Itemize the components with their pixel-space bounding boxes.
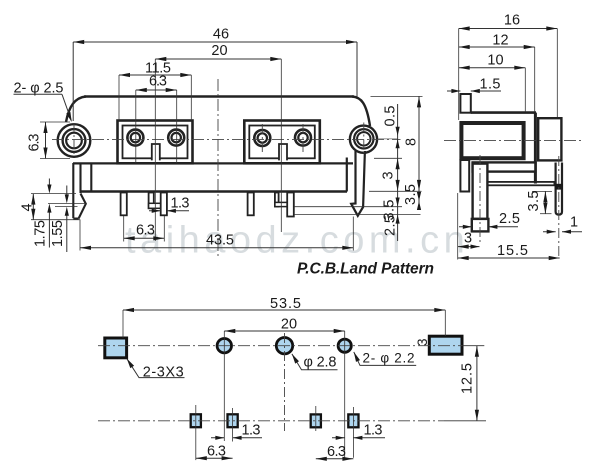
side view rear vertical wall — [534, 113, 537, 184]
arrowheads dim 3.5 inner — [396, 198, 400, 207]
terminal 2 outer — [168, 130, 184, 146]
dim 46 ext left — [72, 42, 74, 121]
contact block 2 outer — [244, 121, 319, 164]
dim 43.5 ext right — [352, 217, 354, 251]
pad A ext — [195, 405, 197, 460]
svg-text:3.5: 3.5 — [526, 191, 542, 212]
left latch barb — [73, 194, 86, 219]
small pad A — [191, 414, 201, 427]
dim 3.5 side column — [544, 191, 546, 213]
ext line latch barb lower — [55, 206, 78, 208]
svg-text:12: 12 — [492, 33, 508, 49]
svg-text:6.3: 6.3 — [207, 444, 226, 460]
dim 1.5 shafts — [447, 90, 501, 92]
dim 20 ext right — [280, 59, 282, 232]
inner dim column right — [397, 104, 399, 241]
left leg below ear — [73, 163, 91, 218]
terminal 1 outer — [127, 130, 143, 146]
mounting ear left middle ring — [63, 129, 86, 152]
small pad C — [311, 414, 321, 427]
dim 11.5 ext right — [190, 75, 192, 121]
arrowheads dim 10 — [459, 66, 470, 70]
svg-text:20: 20 — [211, 43, 227, 59]
dim 12.5 column — [476, 346, 478, 421]
arrowheads dim 1.55 — [65, 194, 69, 203]
right leg below ear — [346, 158, 348, 192]
dim 6.3 left ext bottom — [40, 158, 70, 160]
svg-text:46: 46 — [213, 27, 229, 43]
pad D ext — [352, 407, 354, 458]
pad C ext — [315, 406, 317, 431]
side view top tab — [460, 94, 470, 113]
arrowheads dim 3.5 side — [543, 191, 547, 202]
arrowheads dim 3 right — [396, 158, 400, 169]
pad round left phi2.2 — [217, 339, 231, 353]
terminal 4 outer — [295, 130, 311, 146]
dim 10 line — [459, 67, 526, 69]
mounting ear left outer circle — [58, 124, 91, 157]
dim 6.3 land1 line — [196, 457, 233, 459]
terminal 3 inner — [258, 133, 267, 142]
svg-text:2.5: 2.5 — [499, 211, 520, 227]
pad B ext — [232, 408, 234, 442]
svg-text:16: 16 — [504, 13, 520, 29]
svg-text:3: 3 — [464, 231, 472, 247]
arrowheads dim 6.3 land1 — [196, 456, 207, 460]
arrowheads dim 1.3 land2 — [336, 436, 345, 440]
dim 3 side line — [458, 246, 480, 248]
land centerline — [98, 345, 462, 347]
side view left wall lower — [460, 160, 469, 192]
arrowheads dim 20 — [155, 57, 166, 61]
mounting ear right outer circle — [350, 126, 377, 153]
terminal 2 inner — [172, 133, 181, 142]
dim 20 land ext left — [223, 331, 225, 441]
dim 1 shafts — [543, 231, 582, 233]
svg-text:1.3: 1.3 — [242, 423, 261, 439]
ear right crosshair tick — [363, 123, 365, 156]
side view horizontal centerline — [444, 139, 581, 141]
svg-text:3: 3 — [415, 338, 430, 346]
svg-text:12.5: 12.5 — [460, 363, 476, 394]
dim 6.3 bottom ext right — [163, 216, 165, 242]
dim 6.3 land2 line — [316, 458, 354, 460]
ext line ear-step right — [374, 157, 402, 159]
svg-text:3.5: 3.5 — [403, 184, 419, 205]
svg-text:3: 3 — [381, 171, 397, 179]
leader 2-phi2.2 — [354, 352, 416, 366]
arrowheads dim 8 — [417, 96, 421, 107]
arrowheads dim 12 — [459, 45, 470, 49]
arrowheads dim 6.3 top — [136, 88, 147, 92]
pad round center phi2.8 — [276, 338, 292, 354]
arrowhead leader phi2.8 — [292, 354, 299, 364]
arrowheads dim 15.5 — [458, 256, 469, 260]
dim 3.5 side ext top — [532, 190, 552, 192]
svg-text:10: 10 — [487, 53, 503, 69]
side view front pin foot — [472, 219, 489, 232]
arrowheads dim 20 land — [224, 329, 235, 333]
dim 4 ext top — [31, 193, 76, 195]
arrowheads dim 0.5 — [396, 127, 400, 136]
svg-text:1.5: 1.5 — [480, 77, 501, 93]
dim 20 line — [155, 58, 281, 60]
arrowheads dim 1.3 front — [152, 209, 161, 213]
pin pair 2 left leg — [149, 193, 154, 209]
dim 11.5 ext left — [118, 75, 120, 121]
arrowheads dim 11.5 — [119, 73, 130, 77]
dim 6.3 top line — [136, 89, 177, 91]
svg-text:8: 8 — [404, 138, 420, 146]
mounting ear left inner hole — [66, 133, 82, 149]
pin group 4 bottom bar — [275, 202, 294, 206]
dim 43.5 ext left — [79, 220, 81, 251]
dim 1.55 column — [66, 186, 68, 253]
dim 3.5 side ext bottom — [540, 213, 552, 215]
side view front pin centerline — [479, 155, 481, 245]
pin pair 2 right leg — [161, 193, 167, 216]
svg-text:2.5: 2.5 — [383, 215, 399, 236]
svg-text:15.5: 15.5 — [497, 243, 528, 259]
arrowheads dim 12.5 — [475, 346, 479, 357]
dim 11.5 line — [119, 74, 191, 76]
label 2-phi2.5 leader arrowhead — [66, 112, 72, 122]
ext line body top right — [371, 95, 423, 97]
pin 1 — [121, 193, 127, 216]
ext line latch barb right — [294, 206, 402, 208]
svg-text:6.3: 6.3 — [327, 444, 346, 460]
side view rear pin centerline — [558, 156, 560, 259]
svg-text:φ 2.8: φ 2.8 — [304, 354, 337, 370]
pin group 4 right leg — [287, 193, 294, 217]
label 2-phi2.5 underline — [14, 93, 63, 95]
svg-text:2-3X3: 2-3X3 — [143, 364, 184, 380]
dim 43.5 line — [80, 247, 353, 249]
arrowhead leader 2-3X3 — [127, 359, 134, 369]
small pad D — [348, 414, 358, 427]
arrowheads dim 1.3 land1 — [215, 436, 224, 440]
terminal 3 crosshair tick — [261, 124, 263, 152]
pin 3 — [248, 193, 254, 216]
svg-text:1.3: 1.3 — [171, 196, 190, 212]
mounting ear right inner hole — [357, 132, 370, 145]
block 1 notch — [151, 143, 160, 160]
side view upper arm bar — [473, 162, 536, 171]
leader phi2.8 — [292, 354, 338, 370]
arrowheads dim 3.5 outer diamond — [417, 192, 421, 201]
dim 6.3 left ext top — [40, 121, 70, 123]
leader 2-3X3 — [127, 359, 185, 378]
front view body top-right corner curve — [352, 97, 370, 127]
ext line latch tip right — [294, 213, 421, 215]
arrowheads dim 4 — [31, 194, 35, 205]
dim 15.5 ext left — [457, 193, 459, 260]
front view vertical centerline — [217, 79, 219, 256]
terminal 4 crosshair tick — [302, 124, 304, 152]
arrowheads dim 6.3 bottom — [124, 236, 135, 240]
arrowheads dim 1.75 — [47, 185, 51, 194]
dim 46 ext right — [356, 42, 358, 97]
land lower ext right — [444, 420, 486, 422]
dim 6.3 bottom ext left — [123, 216, 125, 242]
center pad centerline down — [284, 333, 286, 431]
svg-text:1.75: 1.75 — [33, 220, 49, 247]
svg-text:53.5: 53.5 — [270, 296, 301, 312]
dim 12 ext right — [534, 47, 536, 112]
dim 10 ext right — [524, 68, 526, 112]
dim 53.5 ext right — [444, 310, 446, 336]
ext line centerline right — [378, 138, 398, 140]
svg-text:6.3: 6.3 — [136, 223, 155, 239]
side view rear box — [538, 118, 561, 160]
svg-text:6.3: 6.3 — [27, 134, 43, 152]
svg-text:1: 1 — [570, 215, 578, 231]
dim 53.5 line — [123, 309, 445, 311]
side view rear pin — [556, 163, 562, 215]
right latch hook — [351, 151, 365, 216]
terminal 3 outer — [254, 130, 270, 146]
svg-text:taihaodz.com.cn: taihaodz.com.cn — [125, 220, 469, 262]
dim 20 land line — [224, 330, 344, 332]
side view rear pin solder square — [555, 184, 563, 190]
dim 12 line — [459, 46, 535, 48]
pin group 4 left leg — [275, 193, 279, 207]
svg-text:P.C.B.Land Pattern: P.C.B.Land Pattern — [297, 261, 434, 278]
dim 4 ext bottom — [31, 219, 80, 221]
terminal 1 inner — [131, 133, 140, 142]
arrowhead leader 2-phi2.2 — [354, 352, 360, 362]
arrowheads dim 1 — [547, 230, 556, 234]
dim 6.3 left vertical line — [45, 122, 47, 159]
label 2-phi2.5 leader — [62, 94, 71, 120]
side view lower arm bar — [487, 182, 554, 185]
dim 1.3 land2 shafts — [332, 437, 385, 439]
dim 16 ext left — [458, 29, 460, 121]
arrowheads dim 6.3 left — [43, 122, 47, 133]
dim 1.3 front shaft — [149, 210, 189, 212]
arrowheads dim 43.5 — [80, 246, 91, 250]
block 2 notch — [279, 143, 288, 160]
dim 16 line — [459, 28, 558, 30]
pin pair 2 bottom bar — [149, 203, 167, 208]
svg-text:20: 20 — [281, 317, 297, 333]
land centerline ext right — [462, 345, 484, 347]
front view body bottom edge — [80, 190, 347, 192]
dim 4 line — [32, 194, 34, 220]
front view body top-left corner curve — [66, 97, 86, 123]
contact block 1 inner — [123, 126, 188, 159]
dim 6.3 top ext left — [135, 90, 137, 163]
side view barrel — [461, 123, 523, 158]
dim 46 line — [73, 41, 357, 43]
outer dim column right — [418, 96, 420, 207]
front view horizontal centerline — [52, 139, 401, 141]
svg-text:2- φ 2.2: 2- φ 2.2 — [363, 350, 415, 365]
front view body top edge — [84, 95, 354, 98]
arrowhead dim 3 side — [458, 245, 469, 249]
pad square left 3x3 — [105, 338, 127, 358]
mounting ear right middle ring — [354, 129, 373, 148]
dim 1.3 land1 shafts — [211, 437, 262, 439]
dim 2.5 side shafts — [459, 226, 518, 228]
dim 20 land ext right — [344, 331, 346, 460]
svg-text:1.3: 1.3 — [364, 423, 383, 439]
terminal 4 inner — [298, 133, 307, 142]
dim 6.3 bottom line — [124, 237, 165, 239]
dim 53.5 ext left — [122, 310, 124, 338]
arrowheads dim 16 — [459, 26, 470, 30]
svg-text:0.5: 0.5 — [383, 106, 399, 127]
arrowheads dim 53.5 — [123, 308, 134, 312]
contact block 2 inner — [249, 126, 314, 159]
dim 6.3 top ext right — [176, 90, 178, 163]
arrowheads dim 46 — [73, 40, 84, 44]
side view front pin — [473, 164, 488, 219]
ear left crosshair tick — [73, 123, 75, 157]
small pad B — [228, 414, 238, 427]
front view shelf rail — [73, 162, 353, 164]
pad rect right — [429, 336, 462, 354]
svg-text:6.3: 6.3 — [149, 74, 167, 90]
svg-text:43.5: 43.5 — [206, 233, 234, 249]
dim 16 ext right — [556, 29, 558, 118]
svg-text:4: 4 — [20, 203, 36, 211]
ext line body bottom right — [369, 190, 422, 192]
arrowheads dim 1.5 — [451, 89, 460, 93]
svg-text:1.55: 1.55 — [50, 220, 66, 247]
arrowheads dim 2.5 side — [463, 225, 472, 229]
land lower centerline — [98, 420, 444, 422]
dim 1.75 column — [48, 179, 50, 248]
dim 20 ext left — [154, 59, 156, 241]
dim 15.5 line — [458, 257, 560, 259]
contact block 1 outer — [118, 121, 193, 164]
ext line latch barb upper — [48, 203, 86, 205]
pad round right phi2.2 — [338, 339, 351, 352]
side view top plate — [471, 111, 536, 114]
arrowheads dim 6.3 land2 — [316, 457, 327, 461]
